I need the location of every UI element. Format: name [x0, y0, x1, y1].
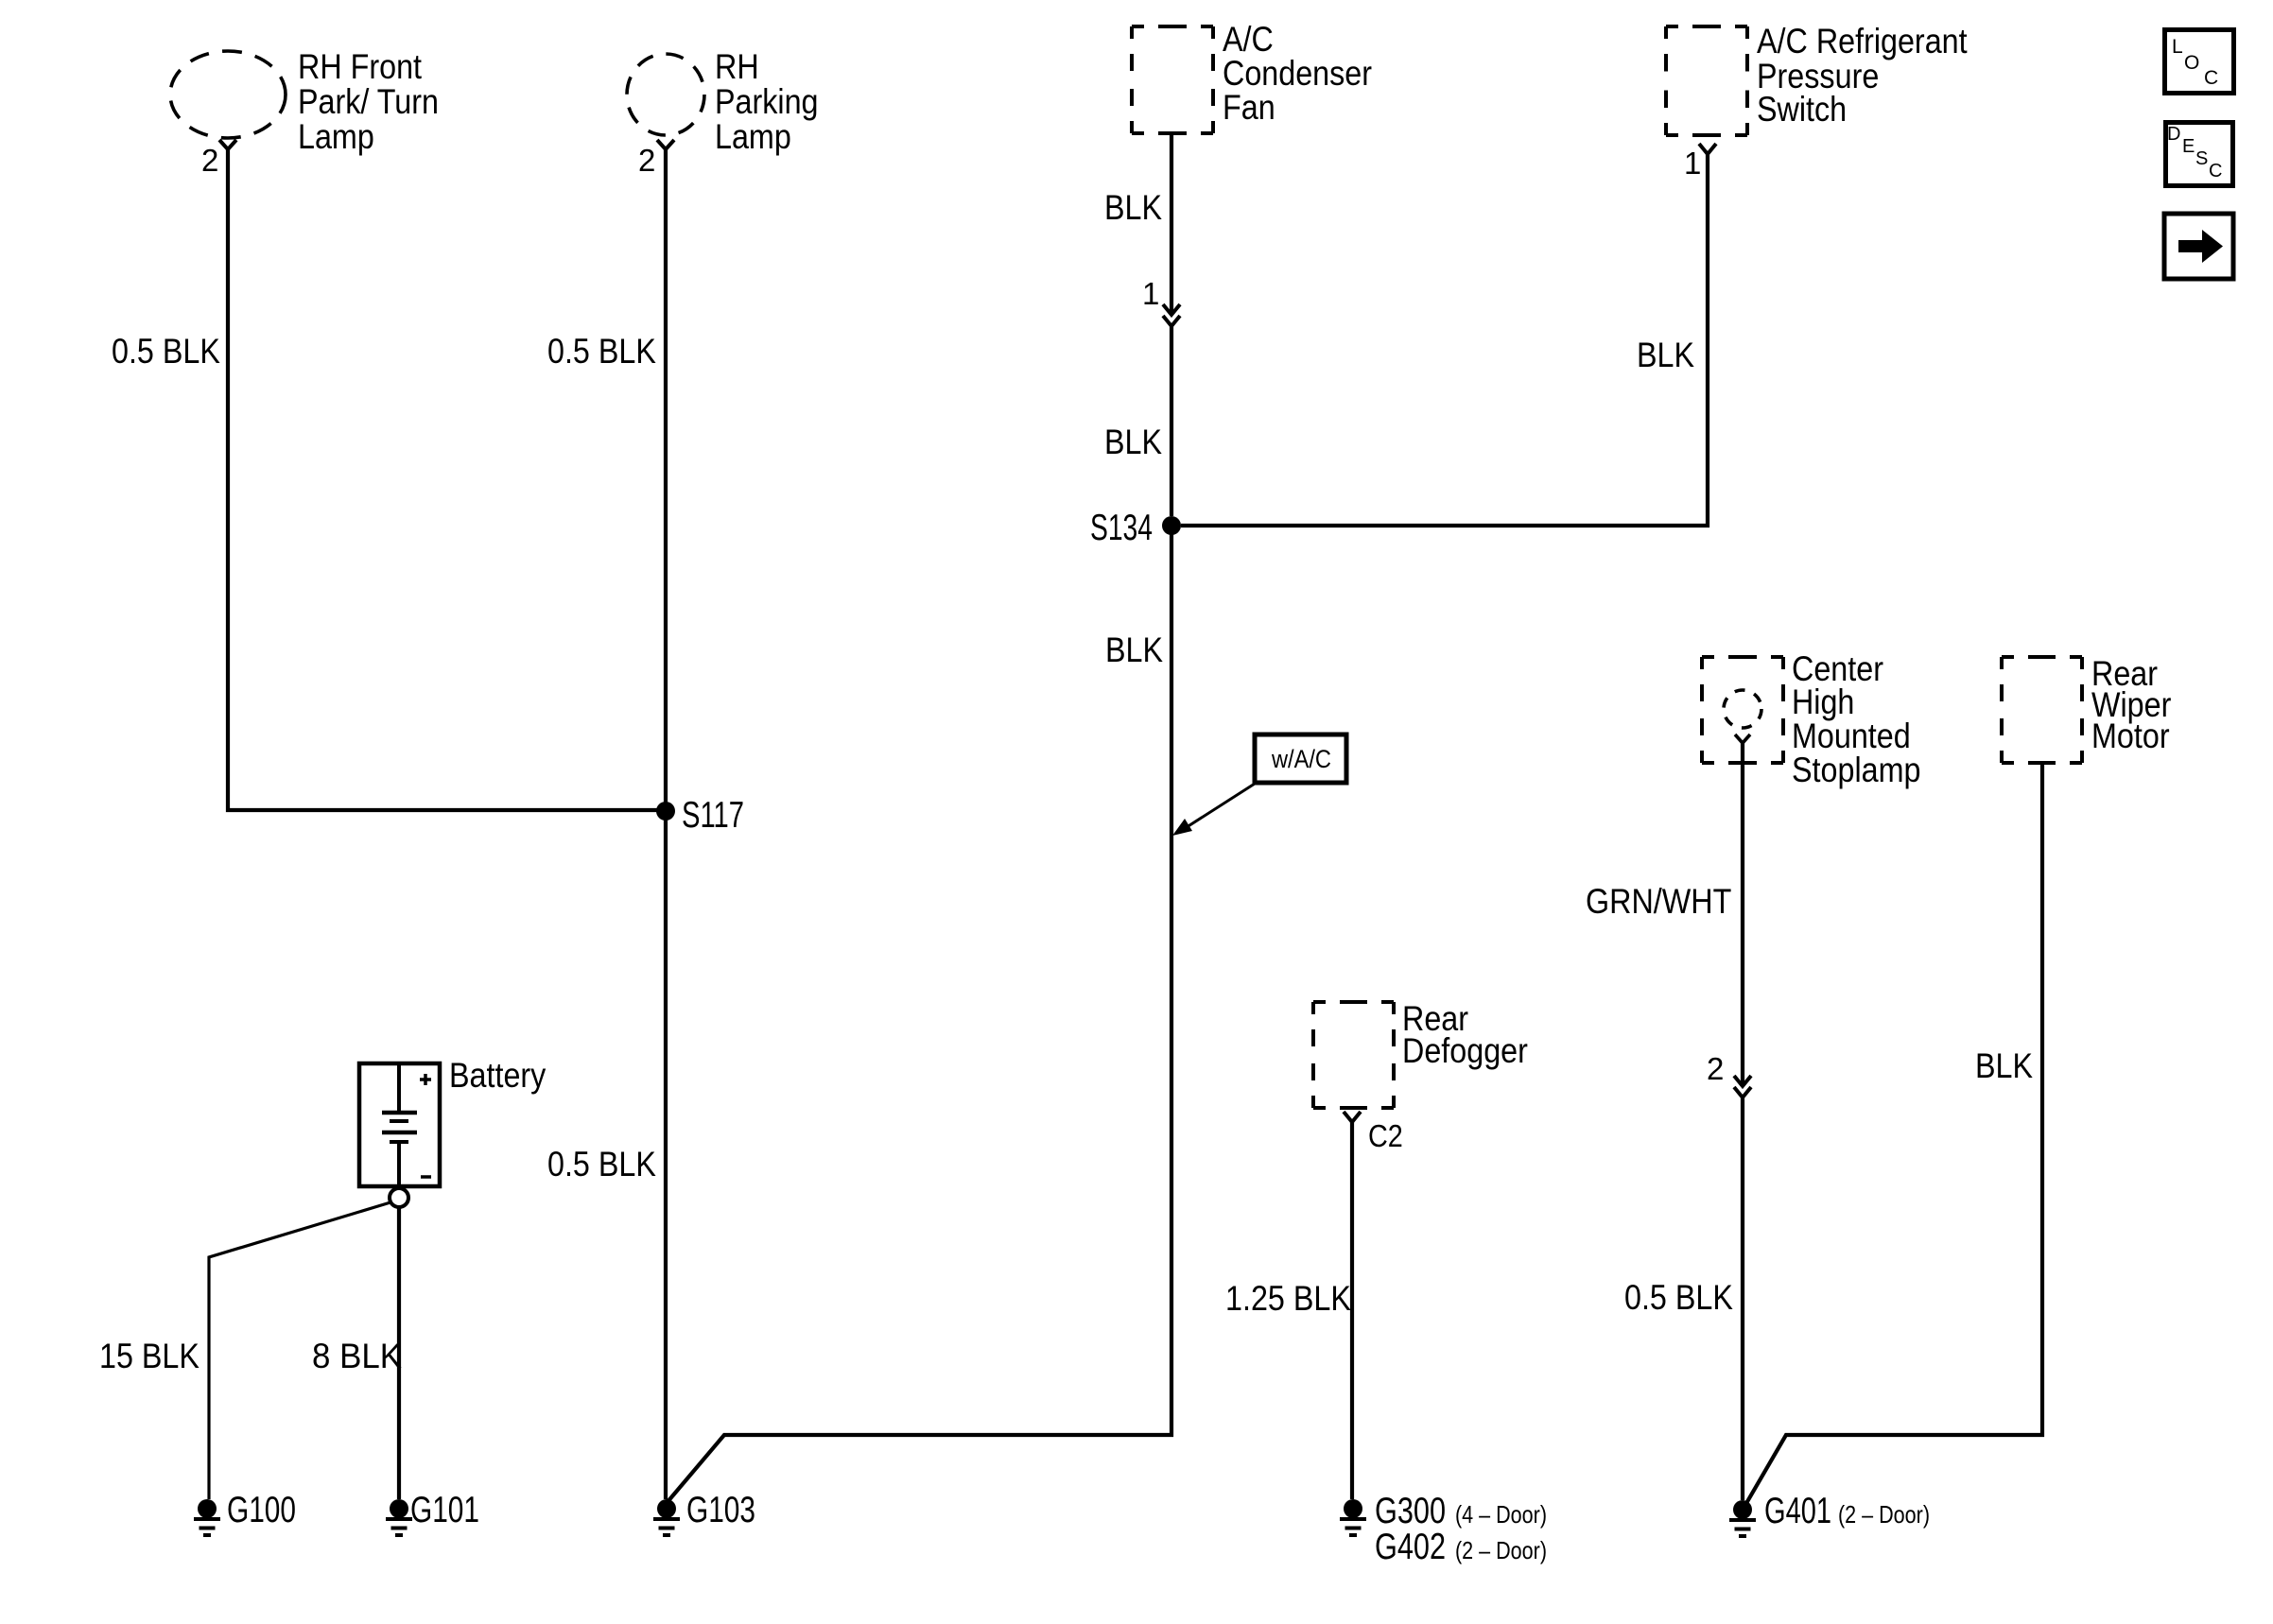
- connector terminal Y at defogger: [1344, 1112, 1361, 1122]
- connector terminal Y at lamp2: [657, 140, 674, 149]
- wire condenser fan to in-line connector (BLK): [1170, 133, 1173, 314]
- svg-text:A/C: A/C: [1223, 20, 1274, 59]
- svg-text:15 BLK: 15 BLK: [99, 1337, 200, 1375]
- svg-text:RH Front: RH Front: [298, 47, 423, 86]
- svg-text:Defogger: Defogger: [1402, 1031, 1528, 1070]
- svg-text:RH: RH: [715, 47, 759, 86]
- ground G300/G402: [1340, 1499, 1366, 1535]
- svg-text:0.5 BLK: 0.5 BLK: [547, 1145, 656, 1183]
- svg-text:BLK: BLK: [1975, 1046, 2033, 1085]
- svg-text:Parking: Parking: [715, 82, 819, 121]
- svg-text:S117: S117: [682, 795, 744, 836]
- wire rear wiper motor to G401 (BLK): [1745, 763, 2042, 1505]
- label A/C Condenser Fan: [1223, 20, 1372, 127]
- svg-text:A/C Refrigerant: A/C Refrigerant: [1757, 22, 1968, 60]
- svg-text:Stoplamp: Stoplamp: [1792, 751, 1921, 789]
- svg-text:0.5 BLK: 0.5 BLK: [1624, 1278, 1733, 1317]
- svg-text:8 BLK: 8 BLK: [312, 1337, 402, 1375]
- ground G100: [194, 1499, 220, 1535]
- svg-text:(4 – Door): (4 – Door): [1455, 1500, 1547, 1529]
- battery minus terminal mark: [421, 1175, 431, 1179]
- svg-text:BLK: BLK: [1104, 423, 1162, 461]
- svg-text:1.25 BLK: 1.25 BLK: [1225, 1279, 1351, 1318]
- svg-text:G100: G100: [227, 1490, 296, 1530]
- svg-text:Mounted: Mounted: [1792, 717, 1911, 755]
- component Center High Mounted Stoplamp (dashed box): [1702, 657, 1783, 763]
- svg-text:G401: G401: [1764, 1491, 1831, 1531]
- svg-text:G402: G402: [1375, 1527, 1446, 1567]
- label Rear Defogger: [1402, 999, 1528, 1070]
- label A/C Refrigerant Pressure Switch: [1757, 22, 1968, 129]
- component Rear Wiper Motor (dashed box): [2002, 657, 2082, 763]
- junction S134 (splice dot): [1162, 516, 1181, 535]
- battery BT1 (box with cell plates): [359, 1063, 440, 1186]
- svg-text:Lamp: Lamp: [298, 117, 374, 156]
- node circle at battery negative terminal: [390, 1188, 408, 1207]
- svg-text:(2 – Door): (2 – Door): [1838, 1500, 1930, 1529]
- wire defogger C2 to G300: [1350, 1122, 1354, 1499]
- svg-text:2: 2: [638, 143, 655, 178]
- svg-text:Battery: Battery: [449, 1056, 547, 1095]
- legend arrow box: [2164, 214, 2233, 279]
- wire in-line connector down to G401 (0.5 BLK): [1741, 1097, 1744, 1500]
- wire battery node to G101: [397, 1207, 401, 1499]
- svg-text:E: E: [2182, 136, 2195, 157]
- svg-text:G101: G101: [410, 1490, 479, 1530]
- svg-text:2: 2: [1707, 1051, 1724, 1086]
- svg-text:S: S: [2195, 148, 2208, 169]
- svg-text:C2: C2: [1368, 1118, 1403, 1153]
- svg-text:C: C: [2204, 67, 2218, 89]
- svg-text:1: 1: [1684, 146, 1701, 181]
- legend DESC box: [2166, 123, 2233, 186]
- svg-text:2: 2: [201, 143, 218, 178]
- svg-text:G300: G300: [1375, 1491, 1446, 1531]
- svg-text:BLK: BLK: [1104, 188, 1162, 227]
- label Rear Wiper Motor: [2091, 654, 2171, 755]
- legend LOC box: [2165, 30, 2234, 94]
- wire pressure switch down and left to S134 (BLK): [1181, 154, 1708, 526]
- component S1 A/C Refrigerant Pressure Switch (dashed box): [1666, 26, 1747, 135]
- battery plus terminal mark: [420, 1074, 431, 1085]
- svg-text:GRN/WHT: GRN/WHT: [1586, 882, 1731, 921]
- in-line connector chevrons on stoplamp wire: [1734, 1076, 1751, 1097]
- lamp E1 RH Front Park/Turn Lamp (dashed ellipse symbol): [170, 51, 286, 138]
- svg-text:L: L: [2172, 36, 2183, 58]
- svg-text:Lamp: Lamp: [715, 117, 791, 156]
- svg-text:1: 1: [1142, 276, 1159, 311]
- svg-text:High: High: [1792, 682, 1854, 721]
- wire stoplamp down to in-line connector (GRN/WHT): [1741, 743, 1744, 1085]
- in-line connector chevrons on fan wire: [1163, 304, 1180, 326]
- wire lamp1 pin 2 down and right to S117: [228, 149, 666, 810]
- wire S134 down to G103 (BLK): [667, 526, 1171, 1503]
- svg-text:(2 – Door): (2 – Door): [1455, 1536, 1547, 1564]
- wire lamp2 pin 2 down through S117 to G103: [664, 149, 668, 1499]
- label G401 (2-Door): [1764, 1491, 1930, 1531]
- stoplamp bulb (small dashed circle with terminal): [1724, 690, 1761, 743]
- svg-text:Motor: Motor: [2091, 717, 2170, 755]
- svg-text:O: O: [2184, 52, 2199, 74]
- svg-text:D: D: [2167, 124, 2180, 145]
- ground G103: [653, 1499, 680, 1535]
- svg-text:G103: G103: [686, 1490, 755, 1530]
- svg-text:BLK: BLK: [1105, 631, 1163, 669]
- svg-text:Fan: Fan: [1223, 88, 1275, 127]
- svg-text:C: C: [2209, 161, 2222, 181]
- junction S117 (splice dot): [656, 802, 675, 821]
- label G402 (2-Door): [1375, 1527, 1547, 1567]
- svg-text:Condenser: Condenser: [1223, 54, 1372, 93]
- lamp E2 RH Parking Lamp (dashed circle symbol): [627, 54, 704, 135]
- component Rear Defogger (dashed box): [1313, 1002, 1394, 1108]
- svg-text:0.5 BLK: 0.5 BLK: [547, 332, 656, 371]
- component M1 A/C Condenser Fan (dashed box): [1132, 26, 1213, 133]
- wire in-line connector down to S134 (BLK): [1170, 326, 1173, 516]
- label RH Front Park/ Turn Lamp: [298, 47, 439, 156]
- label G300 (4-Door): [1375, 1491, 1547, 1531]
- ground G401: [1729, 1500, 1756, 1536]
- callout arrow pointing to wire: [1172, 784, 1255, 836]
- callout box w/A/C: [1255, 734, 1346, 783]
- svg-text:w/A/C: w/A/C: [1271, 745, 1331, 773]
- connector terminal Y at lamp1: [219, 140, 236, 149]
- label RH Parking Lamp: [715, 47, 819, 156]
- label Center High Mounted Stoplamp: [1792, 649, 1921, 789]
- svg-text:0.5 BLK: 0.5 BLK: [112, 332, 220, 371]
- connector terminal Y at pressure switch: [1699, 144, 1716, 154]
- svg-text:Park/ Turn: Park/ Turn: [298, 82, 439, 121]
- svg-text:BLK: BLK: [1637, 336, 1694, 374]
- ground G101: [386, 1499, 412, 1535]
- wire battery node to G100: [209, 1202, 390, 1499]
- svg-text:S134: S134: [1090, 508, 1153, 548]
- svg-text:Switch: Switch: [1757, 90, 1847, 129]
